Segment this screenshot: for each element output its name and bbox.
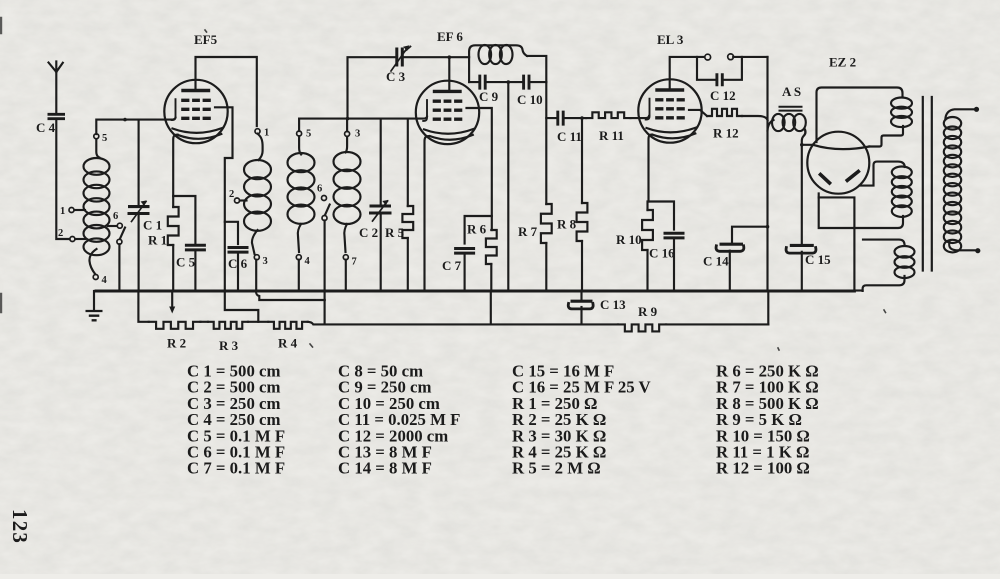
- svg-text:C 7: C 7: [442, 258, 462, 273]
- screen lead EF5 with jog: [215, 107, 233, 291]
- svg-text:7: 7: [352, 257, 357, 268]
- svg-text:4: 4: [305, 256, 311, 267]
- svg-text:C 15: C 15: [805, 252, 831, 267]
- wire grid EF5: [96, 118, 175, 134]
- wire to C3: [348, 57, 396, 118]
- node 6 + band switch: [108, 225, 118, 227]
- node 6 + switch (IFT1): [322, 196, 327, 201]
- ground: [93, 291, 95, 310]
- capacitor C6: [228, 248, 249, 253]
- scan gutter marks: [0, 18, 2, 312]
- R6/C7 bracket: [465, 216, 492, 244]
- EZ2 filament winding: [860, 162, 905, 186]
- svg-text:C 4: C 4: [36, 120, 56, 135]
- svg-text:R 12: R 12: [713, 126, 739, 141]
- svg-text:R 9: R 9: [638, 304, 658, 319]
- variable capacitor C2: [369, 206, 392, 213]
- node 3: [254, 255, 259, 260]
- coil L1: [84, 158, 110, 175]
- svg-text:C 14 = 8 M F: C 14 = 8 M F: [338, 459, 432, 478]
- capacitor C12 loop: [697, 57, 742, 80]
- svg-text:3: 3: [263, 256, 268, 267]
- screen lead EL3 + resistor R12: [689, 110, 707, 116]
- R10/C16 bracket: [648, 202, 675, 230]
- cathode lead EL3: [649, 134, 653, 201]
- resistor R9: [618, 324, 666, 331]
- resistor R6: [486, 230, 497, 264]
- svg-text:EZ 2: EZ 2: [829, 55, 856, 70]
- svg-text:R 11: R 11: [599, 128, 624, 143]
- svg-text:R 1: R 1: [148, 233, 167, 248]
- capacitor C4: [48, 114, 66, 118]
- svg-text:C 11: C 11: [557, 129, 582, 144]
- svg-text:1: 1: [264, 128, 269, 139]
- svg-text:123: 123: [8, 509, 32, 544]
- coil L3: [299, 136, 301, 155]
- tap arrow: [171, 291, 173, 308]
- wire bus to R2 chain: [138, 291, 148, 322]
- node 1: [74, 209, 85, 211]
- resistor R7: [545, 118, 547, 204]
- ink specks: [205, 30, 886, 350]
- svg-text:C 3: C 3: [386, 69, 406, 84]
- capacitor C5: [185, 245, 206, 250]
- node 1 (IFT1): [255, 129, 260, 134]
- svg-text:R 3: R 3: [219, 338, 239, 353]
- capacitor C13: [580, 292, 582, 300]
- wire switch to bus: [118, 244, 120, 291]
- svg-text:C 16: C 16: [649, 246, 675, 261]
- svg-text:C 10: C 10: [517, 92, 543, 107]
- cathode lead EF6: [425, 136, 430, 291]
- svg-text:2: 2: [229, 189, 234, 200]
- staircase coil to chain end: [256, 291, 325, 324]
- junction blobs: [123, 118, 127, 122]
- node 5: [94, 134, 99, 139]
- svg-text:2: 2: [58, 228, 63, 239]
- svg-text:5: 5: [306, 129, 311, 140]
- svg-text:C 12: C 12: [710, 88, 736, 103]
- wire R1/C5 bracket: [173, 196, 195, 244]
- svg-text:EF 6: EF 6: [437, 29, 463, 44]
- wire C1 branch: [138, 120, 140, 206]
- link to bus vertical: [819, 197, 855, 291]
- wire terminal 5 to coil top: [96, 139, 99, 158]
- svg-text:R 4: R 4: [278, 336, 298, 351]
- capacitor C14: [732, 227, 768, 243]
- node 2 (IFT1 tap): [240, 199, 247, 201]
- resistor R2: [149, 322, 201, 329]
- transformer core: [923, 97, 932, 271]
- svg-text:C 2: C 2: [359, 225, 378, 240]
- svg-text:R 12 = 100 Ω: R 12 = 100 Ω: [716, 459, 810, 478]
- capacitor C10: [524, 75, 529, 90]
- choke AS core: [779, 107, 803, 111]
- wire C2 branch: [380, 119, 382, 206]
- svg-text:C 9: C 9: [479, 89, 499, 104]
- svg-text:R 5 = 2 M Ω: R 5 = 2 M Ω: [512, 459, 601, 478]
- choke AS coil: [768, 120, 774, 131]
- coil L5 top: [469, 45, 527, 82]
- svg-text:R 6: R 6: [467, 222, 487, 237]
- svg-text:6: 6: [317, 184, 322, 195]
- capacitor C7: [454, 249, 475, 254]
- wire node4 to bus: [298, 260, 300, 291]
- variable capacitor C1: [128, 207, 150, 214]
- antenna: [49, 62, 63, 114]
- svg-text:3: 3: [355, 129, 360, 140]
- svg-text:6: 6: [113, 211, 118, 222]
- svg-text:C 5: C 5: [176, 255, 196, 270]
- filament marks EZ2: [821, 175, 830, 184]
- anode lead EF5 to HT: [196, 57, 257, 126]
- wire R6 line through bus to rail: [490, 291, 492, 324]
- variable capacitor C3: [397, 48, 403, 67]
- resistor R1: [168, 207, 179, 245]
- resistor R3: [208, 322, 248, 329]
- resistor R11: [586, 112, 631, 118]
- cathode lead EF5: [173, 134, 177, 207]
- capacitor C15: [790, 244, 814, 247]
- resistor R4: [268, 322, 307, 329]
- wire grid EF6: [299, 117, 427, 131]
- capacitor C9: [469, 81, 546, 83]
- svg-text:C 14: C 14: [703, 254, 729, 269]
- svg-text:C 13: C 13: [600, 297, 626, 312]
- svg-text:EL 3: EL 3: [657, 32, 684, 47]
- node 2: [75, 238, 86, 240]
- svg-text:5: 5: [102, 133, 107, 144]
- svg-text:R 2: R 2: [167, 336, 186, 351]
- resistor R10: [642, 210, 653, 250]
- svg-text:A S: A S: [782, 84, 801, 99]
- svg-text:EF5: EF5: [194, 32, 218, 47]
- svg-text:1: 1: [60, 206, 65, 217]
- node 7: [343, 255, 348, 260]
- resistor R8: [581, 118, 583, 203]
- staircase screen EF5 to R3/R4 junction: [225, 291, 258, 322]
- heater winding: [863, 240, 905, 245]
- svg-text:R 8: R 8: [557, 217, 577, 232]
- wire B+ vertical: [766, 57, 768, 291]
- mains primary winding: [974, 107, 979, 112]
- coil L2: [258, 134, 263, 160]
- svg-text:C 7 = 0.1 M F: C 7 = 0.1 M F: [187, 459, 285, 478]
- svg-text:R 7: R 7: [518, 224, 538, 239]
- branch to C6: [225, 222, 238, 244]
- svg-text:R 5: R 5: [385, 225, 405, 240]
- node 5 (IFT1): [297, 131, 302, 136]
- ground bus: [96, 290, 854, 293]
- svg-text:R 10: R 10: [616, 232, 642, 247]
- wire choke to C15 and EZ2: [802, 145, 813, 244]
- node 3b (IFT1 right): [345, 131, 350, 136]
- wire detector drop: [507, 82, 509, 291]
- wire node3 to bus: [255, 260, 257, 291]
- node 4: [93, 275, 98, 280]
- node 4 (IFT1): [296, 255, 301, 260]
- coil L4: [346, 136, 348, 152]
- capacitor C16: [664, 233, 685, 238]
- anode lead EL3 to speaker terminals: [670, 57, 705, 90]
- coil L1 tail to terminal 4: [89, 249, 96, 275]
- anode chord EZ2: [813, 145, 869, 149]
- svg-text:C 1: C 1: [143, 218, 162, 233]
- HV winding loop: [817, 88, 903, 143]
- svg-text:4: 4: [102, 275, 108, 286]
- anode lead EF6: [448, 57, 450, 91]
- resistor R5: [407, 119, 409, 206]
- screen lead EF6: [467, 108, 492, 216]
- wire antenna to terminal 2: [56, 119, 69, 239]
- capacitor C11: [558, 111, 563, 126]
